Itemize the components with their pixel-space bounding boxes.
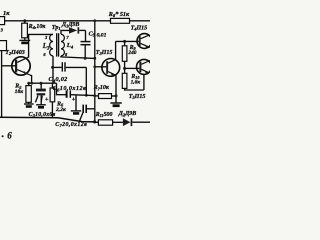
core bbox=[56, 33, 58, 56]
wire T2 emitter drop bbox=[30, 75, 32, 83]
wire input line left edge bbox=[1, 51, 3, 118]
wire T2 collector riser to transformer bbox=[28, 34, 53, 57]
junction dot C4 drop bbox=[85, 94, 88, 97]
resistor R11 bbox=[95, 120, 123, 125]
svg-text:R8* 51к: R8* 51к bbox=[108, 11, 130, 18]
svg-text:Д1Д9В: Д1Д9В bbox=[61, 22, 79, 28]
svg-text:R11500: R11500 bbox=[95, 112, 113, 118]
junction dot R9/R10 bbox=[123, 67, 126, 70]
svg-text:Т2П403: Т2П403 bbox=[5, 50, 25, 56]
svg-text:Т3П15: Т3П15 bbox=[96, 50, 113, 56]
svg-text:2,2к: 2,2к bbox=[55, 107, 66, 113]
wire detector node (L4 bottom across) bbox=[61, 56, 95, 59]
transformer Tr1 bbox=[42, 25, 74, 57]
junction dot R7 left bbox=[93, 94, 96, 97]
wire bottom bus left bbox=[0, 117, 94, 122]
wire T5 base bbox=[125, 67, 140, 69]
junction dot R7 right bbox=[115, 94, 118, 97]
capacitor C7 bbox=[79, 105, 94, 122]
wire T3 collector riser bbox=[115, 41, 117, 59]
junction dot C3 bbox=[40, 82, 43, 85]
coil L4 bbox=[61, 34, 64, 56]
svg-text:Т5П15: Т5П15 bbox=[129, 94, 146, 100]
svg-text:Т4П15: Т4П15 bbox=[131, 25, 148, 31]
junction dot T3 base bbox=[93, 65, 96, 68]
resistor R8 bbox=[111, 18, 130, 23]
wire C4 drop at x86.3 bbox=[85, 67, 87, 95]
svg-text:Тр1: Тр1 bbox=[52, 25, 61, 31]
svg-text:240: 240 bbox=[127, 50, 136, 56]
resistor stub at left edge (input divider) bbox=[0, 41, 7, 51]
diode D1 Д9В bbox=[69, 27, 86, 33]
junction dot T2 emitter bbox=[30, 82, 33, 85]
junction dot R5 bbox=[27, 82, 30, 85]
transistor T3 П15 bbox=[102, 59, 120, 77]
ground under T3 emitter and R10 bbox=[110, 103, 121, 106]
wire L4 top to diode bbox=[61, 30, 69, 34]
diode D2 Д9В bbox=[123, 118, 150, 126]
ground on C6 node bbox=[71, 95, 81, 114]
junction dot R9 top bbox=[123, 40, 126, 43]
junction dot top bus x95 bbox=[93, 19, 96, 22]
junction dot R4 top bbox=[23, 19, 26, 22]
wire T4 base bbox=[116, 40, 139, 42]
transistor T4 П15 bbox=[137, 34, 152, 49]
transistor T5 П15 bbox=[137, 59, 152, 90]
svg-text:R4,10к: R4,10к bbox=[28, 24, 47, 30]
ground under R5 bbox=[24, 104, 34, 107]
svg-text:1,6к: 1,6к bbox=[131, 80, 141, 86]
svg-text:18к: 18к bbox=[15, 89, 24, 95]
capacitor C4 bbox=[53, 62, 87, 71]
capacitor C5 bbox=[81, 30, 91, 58]
svg-text:0,01: 0,01 bbox=[97, 33, 107, 39]
resistor R6 bbox=[50, 83, 55, 118]
svg-text:Д2Д9В: Д2Д9В bbox=[118, 111, 136, 117]
transistor T2 П403 bbox=[12, 57, 30, 75]
svg-text:6: 6 bbox=[7, 131, 12, 141]
wire C6 node (y95) bbox=[57, 83, 95, 95]
resistor R4 bbox=[22, 21, 28, 40]
junction dot C4 tee bbox=[51, 66, 54, 69]
wire long vertical bus x95 bbox=[94, 21, 96, 122]
resistor R3 stub (1к) at left edge bbox=[0, 17, 5, 25]
wire T3 base bbox=[95, 66, 106, 68]
junction dot bottom bus x95 bbox=[93, 120, 96, 123]
wire top bus right bbox=[130, 20, 151, 22]
junction dot on vertical bus bbox=[93, 57, 96, 60]
svg-text:С720,0х12в: С720,0х12в bbox=[55, 122, 87, 128]
svg-text:+: + bbox=[45, 97, 49, 103]
svg-text:R710к: R710к bbox=[93, 85, 110, 91]
svg-text:С40,02: С40,02 bbox=[49, 76, 68, 83]
wire L3 bottom down to R6 column bbox=[52, 56, 54, 83]
resistor R7 bbox=[95, 94, 116, 99]
ground under C3 bbox=[36, 105, 46, 108]
caption figure 6 bbox=[2, 135, 4, 137]
junction dot C5 bottom bbox=[84, 57, 87, 60]
wire T2 base bbox=[2, 65, 15, 67]
wire top bus left bbox=[5, 20, 111, 22]
svg-text:+: + bbox=[72, 97, 76, 103]
coil L3 bbox=[50, 34, 53, 56]
resistor R9 bbox=[122, 41, 127, 68]
ground under R4 bbox=[19, 40, 30, 43]
resistor R5 bbox=[26, 83, 31, 103]
wire emitter node y83 bbox=[29, 82, 57, 84]
svg-text:1к: 1к bbox=[3, 10, 10, 17]
wire T3 emitter drop bbox=[115, 75, 117, 102]
capacitor C3 electrolytic bbox=[35, 83, 45, 104]
resistor R10 bbox=[122, 68, 144, 90]
capacitor C6 electrolytic bbox=[67, 90, 71, 97]
